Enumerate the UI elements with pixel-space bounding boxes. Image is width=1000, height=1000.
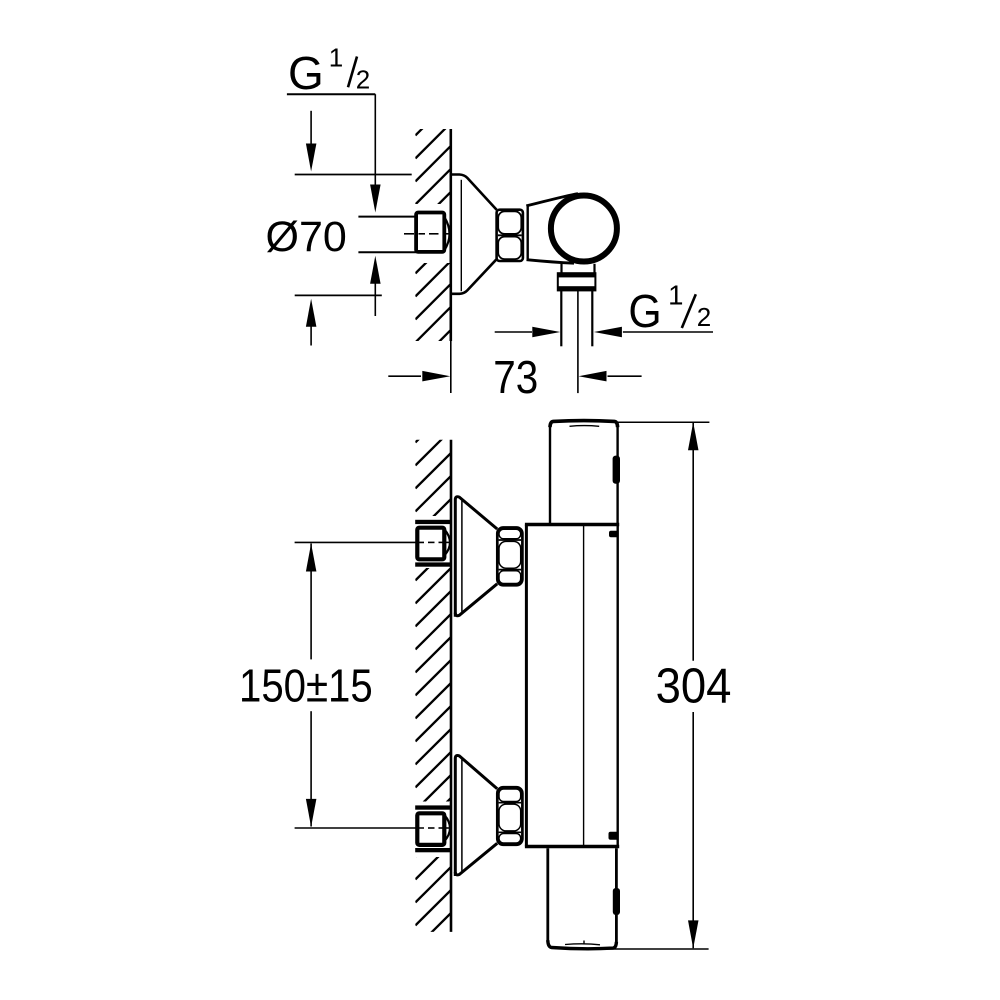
svg-text:150±15: 150±15 [239, 661, 373, 712]
svg-text:73: 73 [493, 352, 538, 403]
svg-text:2: 2 [697, 302, 711, 332]
svg-text:2: 2 [356, 65, 370, 95]
svg-text:304: 304 [656, 659, 732, 714]
svg-text:Ø70: Ø70 [266, 213, 347, 261]
svg-text:G: G [288, 47, 324, 99]
svg-text:1: 1 [668, 280, 683, 311]
svg-text:1: 1 [329, 43, 343, 73]
svg-text:G: G [628, 286, 661, 337]
